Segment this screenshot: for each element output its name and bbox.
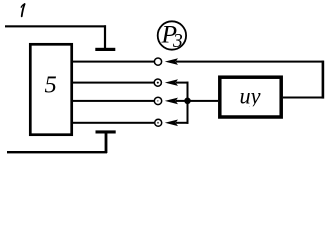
wire: line 2 shaft to bracket	[176, 82, 189, 84]
wire: line 3 from box to terminal	[73, 100, 154, 102]
arrow into terminal 2	[165, 79, 178, 86]
wire: line 2 from box to terminal	[73, 82, 154, 84]
svg-text:иу: иу	[240, 83, 262, 108]
wire: bottom shield lead vertical riser	[105, 133, 108, 153]
box 5 (object under test)	[30, 44, 71, 134]
wire: line 1 from box to terminal	[73, 61, 154, 63]
arrow into terminal 1	[165, 58, 178, 65]
svg-text:3: 3	[172, 31, 183, 52]
svg-text:5: 5	[45, 71, 57, 98]
wire: top shield lead vertical drop	[104, 25, 106, 48]
terminal circle 4	[155, 119, 162, 126]
electrode bar (top capacitive plate)	[95, 48, 115, 51]
meter P3 circle	[158, 21, 186, 49]
terminal circle 2	[154, 79, 161, 86]
wire: bracket vertical joining lines 2,3,4	[187, 82, 189, 124]
wire: line 3 shaft into IU box	[176, 100, 218, 102]
arrow into terminal 3	[165, 98, 178, 105]
wire: top shield lead horizontal	[5, 25, 106, 27]
label 1 (pointer to shield line)	[21, 4, 24, 16]
terminal circle 3	[154, 97, 161, 104]
wire: right vertical return from line 1	[322, 61, 325, 99]
wire: line 1 shaft to right edge	[176, 61, 324, 63]
arrow into terminal 4	[165, 120, 178, 127]
wire: bottom shield lead horizontal	[7, 151, 107, 153]
box IU (measuring device)	[220, 77, 281, 117]
wire: return into right side of IU box	[283, 97, 324, 99]
junction dot on line 3	[184, 98, 191, 105]
wire: line 4 shaft to bracket	[176, 122, 189, 124]
wire: line 4 from box to terminal	[73, 122, 154, 124]
terminal circle 1	[154, 58, 161, 65]
electrode bar (bottom capacitive plate)	[96, 130, 116, 133]
